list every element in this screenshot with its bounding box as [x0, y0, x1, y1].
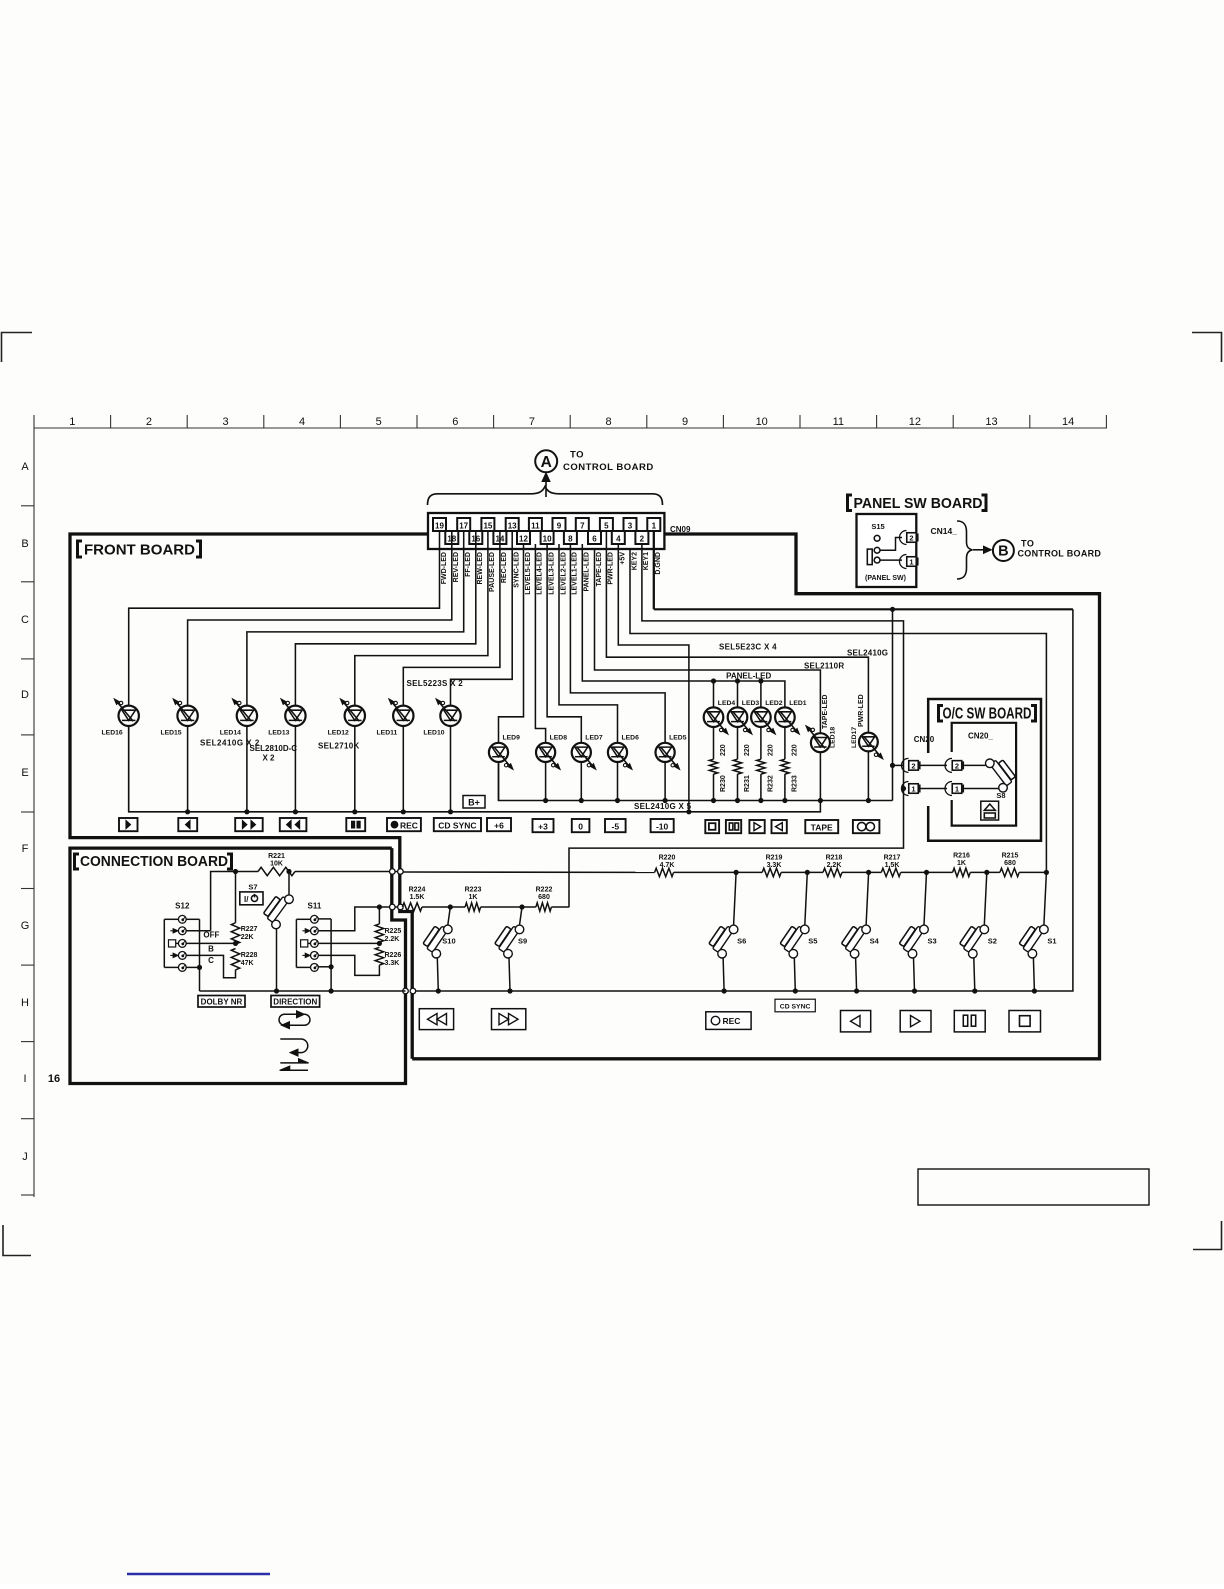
wire PWR-LED to LED17 — [606, 531, 868, 733]
button pause — [346, 818, 365, 831]
svg-text:R227: R227 — [241, 926, 258, 933]
svg-text:LED11: LED11 — [377, 730, 398, 737]
resistor R215 680 — [1000, 868, 1019, 876]
svg-text:LED14: LED14 — [220, 730, 241, 737]
svg-text:SEL2110R: SEL2110R — [804, 662, 844, 671]
LED LED3 — [728, 707, 748, 727]
grid ruler horizontal — [34, 427, 1107, 429]
LED LED15 — [177, 706, 197, 726]
LED LED16 — [119, 706, 139, 726]
svg-text:CONTROL BOARD: CONTROL BOARD — [563, 462, 654, 473]
wire LED11 cathode — [402, 726, 404, 812]
LED LED9 — [489, 743, 508, 762]
svg-text:SEL5223S X 2: SEL5223S X 2 — [407, 679, 464, 688]
resistor R222 680 — [536, 903, 552, 911]
svg-text:8: 8 — [605, 416, 611, 428]
svg-text:6: 6 — [592, 535, 597, 544]
button +6 — [487, 818, 511, 831]
CN09 pin 5 — [600, 518, 613, 531]
svg-text:REW-LED: REW-LED — [477, 552, 484, 585]
wire S15 to CN14 — [880, 538, 902, 551]
svg-text:10K: 10K — [270, 861, 283, 868]
resistor R221 10K — [258, 867, 295, 875]
svg-text:LED16: LED16 — [102, 730, 123, 737]
svg-text:680: 680 — [538, 894, 550, 901]
svg-text:LED7: LED7 — [585, 735, 603, 742]
button REW — [280, 818, 307, 831]
svg-text:-10: -10 — [656, 821, 669, 831]
arrow to B — [973, 549, 986, 551]
svg-text:O/C SW BOARD: O/C SW BOARD — [943, 706, 1032, 723]
button -5 — [605, 819, 626, 832]
svg-text:TAPE-LED: TAPE-LED — [596, 552, 603, 586]
wire TAPE-LED to LED18 — [595, 549, 821, 733]
svg-text:2: 2 — [146, 416, 152, 428]
switch S3 — [924, 870, 929, 875]
svg-text:J: J — [22, 1151, 28, 1163]
wire LED6 cathode — [617, 762, 619, 801]
wire LED14 cathode — [246, 726, 248, 812]
direction loop arrow — [279, 1014, 310, 1025]
svg-text:S5: S5 — [808, 937, 817, 946]
svg-text:E: E — [21, 767, 28, 779]
LED LED10 — [440, 706, 460, 726]
wire S7 to ground rail — [276, 929, 278, 991]
svg-text:S12: S12 — [175, 902, 190, 911]
CN09 pin 14 — [493, 531, 506, 544]
svg-text:R219: R219 — [766, 855, 783, 862]
svg-text:PANEL SW BOARD: PANEL SW BOARD — [854, 495, 983, 512]
svg-text:LED18: LED18 — [830, 727, 837, 748]
button forward open — [749, 820, 764, 833]
svg-text:5: 5 — [604, 522, 609, 531]
wire LED9 cathode — [498, 762, 500, 801]
svg-text:X 2: X 2 — [263, 754, 276, 763]
CN09 pin 7 — [576, 518, 589, 531]
CN09 pin 17 — [457, 518, 470, 531]
direction two-way arrows — [280, 1062, 308, 1064]
svg-text:3.3K: 3.3K — [767, 862, 782, 869]
svg-text:LED12: LED12 — [328, 730, 349, 737]
button play — [119, 818, 138, 831]
svg-text:FF-LED: FF-LED — [465, 552, 472, 577]
svg-text:A: A — [541, 454, 552, 471]
switch S1 — [1044, 870, 1049, 875]
CN09 pin 3 — [624, 518, 637, 531]
CN09 pin 6 — [588, 531, 601, 544]
svg-text:CD SYNC: CD SYNC — [780, 1003, 811, 1010]
wire CN09 pin to LED8 — [535, 544, 545, 743]
wire LED8 cathode — [545, 762, 547, 801]
svg-text:R225: R225 — [385, 928, 402, 935]
feed-through ground rail — [403, 988, 409, 994]
wire LED13 cathode — [294, 726, 296, 812]
LED LED2 — [751, 707, 771, 727]
brace over connector CN09 — [428, 487, 663, 506]
svg-text:C: C — [208, 956, 214, 965]
CN09 pin 15 — [481, 518, 494, 531]
svg-text:CN20: CN20 — [914, 735, 935, 744]
O/C inner board box — [952, 723, 1016, 826]
CN09 pin 16 — [469, 531, 482, 544]
brace CN14 to B — [957, 521, 973, 579]
button forward bottom — [900, 1011, 931, 1032]
svg-text:PWR-LED: PWR-LED — [858, 694, 865, 727]
button reverse play — [178, 818, 197, 831]
CN09 pin 1 — [647, 518, 660, 531]
switch S7 power — [288, 872, 290, 896]
svg-text:7: 7 — [580, 522, 585, 531]
svg-text:FWD-LED: FWD-LED — [441, 552, 448, 584]
button reverse open — [772, 820, 787, 833]
svg-text:47K: 47K — [241, 960, 254, 967]
switch S4 — [866, 870, 871, 875]
wire CN09 pin to LED11 — [403, 531, 500, 706]
wire R221 net — [211, 872, 258, 931]
svg-text:11: 11 — [833, 416, 844, 428]
arrow from CN09 brace to A — [545, 478, 547, 497]
wire LED15 cathode — [187, 726, 189, 812]
connector CN20 pin 1 outer — [903, 788, 906, 790]
svg-text:2.2K: 2.2K — [827, 862, 842, 869]
button stop bottom — [1009, 1011, 1041, 1032]
svg-text:LED15: LED15 — [160, 730, 181, 737]
PANEL SW BOARD box — [857, 514, 917, 587]
svg-text:LED1: LED1 — [789, 700, 807, 707]
svg-text:11: 11 — [531, 522, 540, 531]
svg-text:12: 12 — [909, 416, 921, 428]
wire LED17 cathode — [867, 751, 869, 800]
svg-text:10: 10 — [756, 416, 768, 428]
node B circle TO CONTROL BOARD — [993, 540, 1014, 561]
resistor R217 1.5K — [881, 868, 900, 876]
corner mark bottom-left — [3, 1225, 31, 1256]
svg-text:B: B — [21, 538, 28, 550]
svg-text:2.2K: 2.2K — [385, 936, 400, 943]
wire LED12 cathode — [354, 726, 356, 812]
svg-text:R215: R215 — [1002, 853, 1019, 860]
svg-text:0: 0 — [578, 821, 583, 831]
LED LED12 — [345, 706, 365, 726]
connector CN14 pin 1 — [900, 555, 907, 569]
connector CN20 pin 2 inner — [945, 758, 952, 772]
feed-through R224 line — [390, 904, 396, 910]
LED LED14 — [237, 706, 257, 726]
svg-text:TAPE: TAPE — [811, 822, 833, 832]
svg-text:SEL5E23C X 4: SEL5E23C X 4 — [719, 643, 777, 652]
svg-text:S9: S9 — [518, 937, 527, 946]
FRONT BOARD outline — [70, 534, 428, 1059]
corner mark bottom-right — [1193, 1221, 1222, 1250]
switch S12 wiring — [186, 918, 199, 920]
resistor R216 1K — [953, 868, 971, 876]
wire KEY1 scan line — [569, 544, 904, 907]
CN09 pin 12 — [517, 531, 530, 544]
button TAPE — [805, 820, 838, 833]
empty revision box bottom-right — [918, 1169, 1149, 1205]
svg-text:10: 10 — [543, 535, 552, 544]
resistor R232 220 — [760, 727, 762, 759]
wire key scan chain lower — [422, 906, 465, 908]
svg-text:4.7K: 4.7K — [660, 862, 675, 869]
svg-text:6: 6 — [452, 416, 458, 428]
svg-text:SYNC-LED: SYNC-LED — [514, 552, 521, 588]
svg-text:OFF: OFF — [203, 931, 219, 940]
switch S8 open/close — [998, 760, 1015, 780]
wire CN09 pin to LED9 — [499, 544, 524, 743]
button double stop — [726, 820, 741, 833]
wire LED7 cathode — [580, 762, 582, 801]
button -10 — [651, 819, 674, 832]
svg-text:CONNECTION BOARD: CONNECTION BOARD — [80, 854, 228, 870]
svg-text:S15: S15 — [871, 522, 884, 531]
svg-text:2: 2 — [909, 534, 913, 543]
svg-text:SEL2410G: SEL2410G — [847, 649, 888, 658]
svg-text:B+: B+ — [468, 798, 480, 808]
svg-text:S4: S4 — [870, 937, 880, 946]
svg-text:3: 3 — [628, 522, 633, 531]
wire LED5 cathode — [664, 762, 666, 801]
button pause bottom — [954, 1011, 985, 1032]
svg-text:LEVEL1-LED: LEVEL1-LED — [572, 552, 579, 595]
svg-text:LEVEL5-LED: LEVEL5-LED — [525, 552, 532, 595]
resistor R233 220 — [784, 727, 786, 759]
svg-text:2: 2 — [640, 535, 645, 544]
svg-text:13: 13 — [985, 416, 997, 428]
svg-text:12: 12 — [519, 535, 528, 544]
svg-text:KEY2: KEY2 — [631, 552, 638, 570]
wire LED18 cathode — [819, 752, 821, 812]
svg-text:LED10: LED10 — [423, 730, 444, 737]
button 0 — [572, 819, 590, 832]
svg-text:D.GND: D.GND — [655, 552, 662, 575]
svg-text:CD SYNC: CD SYNC — [438, 820, 476, 830]
CONNECTION BOARD title — [75, 854, 80, 869]
svg-text:S3: S3 — [928, 937, 937, 946]
wire CN09 pin to LED14 — [247, 531, 464, 706]
svg-text:REC-LED: REC-LED — [501, 552, 508, 583]
svg-text:R221: R221 — [268, 853, 285, 860]
svg-text:PANEL-LED: PANEL-LED — [584, 552, 591, 592]
svg-text:(PANEL SW): (PANEL SW) — [865, 575, 906, 582]
svg-text:I/: I/ — [244, 895, 249, 904]
svg-text:SEL2810D-C: SEL2810D-C — [250, 744, 298, 753]
wire D.GND heavy — [653, 531, 655, 609]
label DIRECTION — [271, 996, 320, 1008]
svg-text:R233: R233 — [791, 775, 798, 792]
svg-text:REC: REC — [723, 1016, 741, 1026]
svg-text:CN20_: CN20_ — [968, 732, 993, 741]
resistor R231 220 — [737, 727, 739, 759]
svg-text:S8: S8 — [996, 791, 1005, 800]
LED LED8 — [536, 743, 555, 762]
svg-text:4: 4 — [616, 535, 621, 544]
PANEL SW BOARD title — [848, 495, 853, 511]
wire CN09 pin to LED13 — [295, 531, 475, 706]
svg-text:220: 220 — [767, 744, 774, 756]
LED LED1 — [775, 707, 795, 727]
svg-text:R216: R216 — [953, 853, 970, 860]
resistor R226 3.3K — [375, 947, 383, 965]
svg-text:R224: R224 — [409, 887, 426, 894]
button reverse bottom — [841, 1011, 871, 1032]
switch S11 wiring — [318, 918, 331, 920]
wire CN20 to S8 — [964, 764, 986, 766]
svg-text:S10: S10 — [442, 937, 455, 946]
svg-text:5: 5 — [376, 416, 382, 428]
button FF — [235, 818, 263, 831]
svg-text:3.3K: 3.3K — [385, 960, 400, 967]
svg-text:220: 220 — [791, 744, 798, 756]
svg-text:S7: S7 — [248, 883, 257, 892]
svg-text:220: 220 — [744, 744, 751, 756]
connector CN14 pin 2 — [900, 531, 907, 545]
svg-text:LED6: LED6 — [622, 735, 640, 742]
svg-text:R222: R222 — [536, 887, 553, 894]
svg-text:S11: S11 — [308, 902, 322, 911]
CN09 pin 8 — [564, 531, 577, 544]
svg-text:1.5K: 1.5K — [410, 894, 425, 901]
wire CN09 pin to LED16 — [129, 531, 440, 706]
svg-text:LED13: LED13 — [268, 730, 289, 737]
O/C SW BOARD box — [928, 699, 1041, 841]
eject symbol — [981, 801, 999, 820]
resistor R225 2.2K — [378, 907, 380, 924]
svg-text:R218: R218 — [826, 855, 843, 862]
resistor R219 3.3K — [762, 868, 781, 876]
wire CN09 pin to LED12 — [355, 531, 488, 706]
LED LED4 — [704, 707, 724, 727]
label B+ — [463, 796, 485, 809]
blue separator line bottom — [127, 1573, 270, 1576]
O/C SW BOARD title — [939, 706, 944, 722]
button REC — [387, 818, 421, 831]
connector CN09 body — [428, 513, 664, 549]
svg-text:1K: 1K — [957, 860, 966, 867]
LED LED11 — [393, 706, 413, 726]
svg-text:S2: S2 — [988, 937, 997, 946]
wire LED16 cathode — [128, 726, 130, 812]
wire switch common rail — [200, 990, 406, 992]
svg-text:PAUSE-LED: PAUSE-LED — [489, 552, 496, 592]
svg-text:LEVEL2-LED: LEVEL2-LED — [560, 552, 567, 595]
button stop — [705, 820, 719, 833]
svg-text:+3: +3 — [538, 821, 548, 831]
svg-text:LED5: LED5 — [669, 735, 687, 742]
svg-text:17: 17 — [459, 522, 468, 531]
button +3 — [533, 819, 554, 832]
svg-text:CONTROL BOARD: CONTROL BOARD — [1018, 548, 1102, 558]
svg-text:2: 2 — [955, 761, 959, 770]
svg-text:F: F — [22, 843, 29, 855]
wire CN09 to right edge heavy — [664, 534, 796, 594]
svg-text:SEL2410G X 5: SEL2410G X 5 — [634, 802, 692, 811]
svg-text:9: 9 — [557, 522, 562, 531]
svg-text:R220: R220 — [659, 855, 676, 862]
resistor R220 4.7K — [655, 868, 674, 876]
svg-text:220: 220 — [720, 744, 727, 756]
svg-text:14: 14 — [1062, 416, 1074, 428]
svg-text:B: B — [998, 544, 1008, 560]
feed-through R221 line — [390, 869, 396, 875]
wire CN20 outer to inner — [919, 764, 947, 766]
svg-text:DIRECTION: DIRECTION — [273, 998, 317, 1007]
switch S6 — [734, 870, 739, 875]
corner mark top-right — [1192, 333, 1222, 363]
LED LED5 — [656, 743, 675, 762]
svg-text:4: 4 — [299, 416, 305, 428]
wire CN09 pin to LED15 — [188, 531, 452, 706]
button loop — [853, 820, 880, 833]
svg-text:DOLBY NR: DOLBY NR — [201, 998, 243, 1007]
svg-text:LEVEL4-LED: LEVEL4-LED — [537, 552, 544, 595]
node A circle TO CONTROL BOARD — [535, 450, 557, 472]
svg-text:R228: R228 — [241, 952, 258, 959]
switch S9 — [519, 904, 524, 909]
svg-text:1.5K: 1.5K — [885, 862, 900, 869]
svg-text:8: 8 — [568, 535, 573, 544]
resistor R218 2.2K — [823, 868, 842, 876]
svg-text:1: 1 — [909, 558, 913, 567]
CN09 pin 18 — [445, 531, 458, 544]
resistor R228 47K — [231, 949, 239, 970]
resistor R230 220 — [713, 727, 715, 759]
wire PANEL-LED net — [582, 544, 785, 707]
LED LED17 PWR-LED — [859, 733, 878, 752]
svg-text:CN14_: CN14_ — [931, 526, 958, 536]
label CD SYNC small — [775, 999, 815, 1012]
connector CN20 pin 1 inner — [945, 782, 952, 796]
svg-text:1: 1 — [955, 785, 959, 794]
svg-text:KEY1: KEY1 — [643, 552, 650, 570]
wire CN09 pin to LED10 — [451, 531, 513, 706]
svg-text:1: 1 — [911, 785, 915, 794]
svg-text:SEL2710K: SEL2710K — [318, 742, 360, 751]
svg-text:16: 16 — [48, 1073, 60, 1085]
svg-text:9: 9 — [682, 416, 688, 428]
wire R224 line in board — [379, 906, 400, 908]
wire to CN20 pin 2 — [893, 764, 905, 766]
LED LED18 TAPE-LED — [811, 733, 830, 752]
resistor R227 22K — [235, 872, 237, 923]
button REW bottom — [419, 1009, 453, 1030]
svg-text:FRONT BOARD: FRONT BOARD — [84, 542, 195, 559]
svg-text:R226: R226 — [385, 952, 402, 959]
svg-text:680: 680 — [1004, 860, 1016, 867]
svg-text:LED3: LED3 — [742, 700, 760, 707]
LED LED6 — [608, 743, 627, 762]
switch S2 — [984, 870, 989, 875]
wire CN09 pin to LED5 — [570, 544, 665, 743]
svg-text:R217: R217 — [884, 855, 901, 862]
svg-text:22K: 22K — [241, 934, 254, 941]
svg-text:S6: S6 — [737, 937, 746, 946]
wire B+ rail — [129, 726, 821, 812]
resistor R224 1.5K — [402, 903, 422, 911]
svg-text:1: 1 — [652, 522, 657, 531]
svg-text:7: 7 — [529, 416, 535, 428]
svg-text:R223: R223 — [465, 887, 482, 894]
svg-text:REV-LED: REV-LED — [453, 552, 460, 582]
grid ruler vertical — [33, 428, 35, 1197]
svg-text:1K: 1K — [469, 894, 478, 901]
svg-text:D: D — [21, 689, 29, 701]
LED LED7 — [572, 743, 591, 762]
svg-text:+6: +6 — [494, 820, 504, 830]
svg-text:C: C — [21, 614, 29, 626]
svg-text:TAPE-LED: TAPE-LED — [822, 695, 829, 729]
wire D.GND branch to CN20 — [892, 609, 894, 800]
